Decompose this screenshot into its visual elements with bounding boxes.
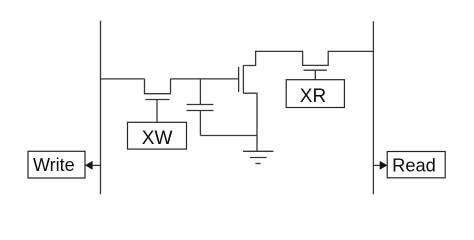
svg-text:Read: Read <box>392 155 436 176</box>
wire: capacitor bottom plate to ground node <box>200 135 257 137</box>
label box XW <box>128 122 187 149</box>
label box XR <box>286 80 344 108</box>
wire: read line from M1 drain to XR drain <box>255 50 302 52</box>
wire: left write bitline <box>100 21 102 195</box>
wire: right read bitline <box>372 21 374 194</box>
ground <box>243 136 273 164</box>
transistor M1 (storage readout NMOS, vertical channel) <box>239 51 257 136</box>
wire: XR source to read bitline <box>328 50 373 52</box>
svg-text:XR: XR <box>300 86 326 107</box>
arrow: write port (from bitline into Write box) <box>85 161 101 170</box>
transistor XW (write access NMOS pass gate) <box>145 79 171 122</box>
label box Write <box>28 151 85 178</box>
svg-text:XW: XW <box>142 128 173 149</box>
wire: storage node from XW source to read transistor gate <box>171 78 239 80</box>
transistor XR (read access NMOS pass gate) <box>303 51 329 80</box>
wire: write wordline from bitline to XW drain <box>101 78 145 80</box>
capacitor C1 (storage cell) <box>187 79 214 136</box>
label box Read <box>387 152 445 178</box>
svg-text:Write: Write <box>33 155 75 175</box>
arrow: read port (from bitline into Read box) <box>373 161 387 170</box>
